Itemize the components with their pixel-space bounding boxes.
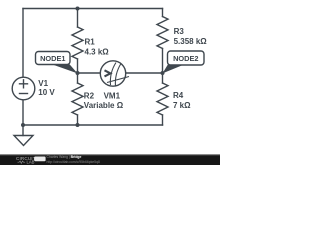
footer logo badge <box>34 157 45 162</box>
svg-text:VM1: VM1 <box>104 92 121 101</box>
VM1 chevron <box>105 70 111 76</box>
wire node1 to voltmeter <box>78 72 101 74</box>
wire bottom rail <box>23 124 163 126</box>
svg-text:LAB: LAB <box>27 160 35 165</box>
wire R4 top lead <box>162 73 164 83</box>
junction top <box>76 7 80 11</box>
voltage source V1 circle <box>12 77 35 100</box>
wire top rail <box>23 8 163 10</box>
svg-text:NODE1: NODE1 <box>40 54 65 63</box>
wire left branch upper <box>22 9 24 78</box>
junction bottom middle <box>76 123 80 127</box>
V1 plus sign <box>20 80 28 88</box>
junction node2 <box>161 71 165 75</box>
junction node1 <box>76 71 80 75</box>
wire ground stub <box>22 125 24 136</box>
wire R1 bottom lead <box>77 59 79 73</box>
wire R3 bottom lead <box>162 49 164 74</box>
node NODE2 flag tail <box>163 64 187 74</box>
svg-text:V1: V1 <box>38 79 48 88</box>
voltmeter VM1 circle <box>100 61 125 86</box>
svg-text:R4: R4 <box>173 91 184 100</box>
svg-text:4.3 kΩ: 4.3 kΩ <box>85 48 110 57</box>
resistor R2 <box>72 83 83 115</box>
wire R2 bottom lead <box>77 115 79 125</box>
wire middle branch top lead <box>77 9 79 28</box>
VM1 needle <box>107 77 129 83</box>
wire right branch top lead <box>162 9 164 17</box>
wire R2 top lead <box>77 73 79 83</box>
junction bottom left <box>21 123 25 127</box>
svg-text:http://circuitlab.com/c/95b66p: http://circuitlab.com/c/95b66pke5q8 <box>47 160 100 164</box>
footer gradient edge <box>0 154 220 155</box>
wire left branch lower <box>22 100 24 125</box>
svg-text:Variable Ω: Variable Ω <box>84 101 124 110</box>
V1 minus sign <box>20 93 28 95</box>
svg-text:R3: R3 <box>174 27 185 36</box>
node NODE2 box <box>168 51 205 65</box>
resistor R1 <box>72 27 83 59</box>
svg-text:Charles Wang | Bridge: Charles Wang | Bridge <box>47 155 82 159</box>
footer bar <box>0 155 220 165</box>
svg-text:7 kΩ: 7 kΩ <box>173 101 191 110</box>
ground <box>14 136 33 146</box>
VM1 meter arc 1 <box>110 63 116 86</box>
node NODE1 flag tail <box>50 64 78 74</box>
node NODE1 box <box>36 52 71 65</box>
resistor R3 <box>157 17 168 49</box>
svg-text:NODE2: NODE2 <box>173 54 198 63</box>
svg-text:5.358 kΩ: 5.358 kΩ <box>174 37 208 46</box>
wire voltmeter to node2 <box>126 72 163 74</box>
svg-text:R1: R1 <box>85 38 96 47</box>
svg-text:R2: R2 <box>84 92 95 101</box>
wire R4 bottom lead <box>162 115 164 125</box>
VM1 meter arc 2 <box>115 64 121 87</box>
resistor R4 <box>157 83 168 115</box>
svg-text:10 V: 10 V <box>38 88 55 97</box>
footer logo waveform <box>18 161 26 163</box>
